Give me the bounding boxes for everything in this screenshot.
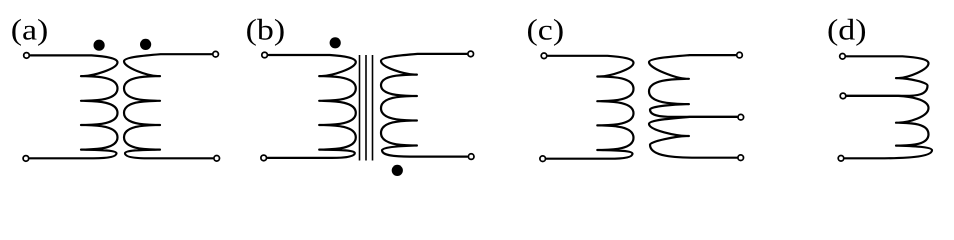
primary winding Lc1 with leads bbox=[547, 56, 634, 159]
secondary winding Lc2 upper half with center-tap lead bbox=[649, 55, 737, 117]
svg-text:(a): (a) bbox=[11, 12, 49, 46]
terminal c5 bbox=[738, 155, 744, 161]
svg-text:(c): (c) bbox=[527, 12, 565, 46]
svg-text:(d): (d) bbox=[827, 12, 867, 46]
terminal c1 bbox=[541, 53, 547, 59]
terminal a4 bbox=[214, 156, 220, 162]
phase dot on Lb1 bbox=[330, 37, 341, 48]
terminal b3 bbox=[468, 51, 474, 57]
magnetic core bbox=[359, 55, 361, 161]
terminal a2 bbox=[23, 156, 29, 162]
phase dot on La2 bbox=[140, 39, 151, 50]
terminal a1 bbox=[24, 53, 30, 59]
terminal d2 bbox=[840, 93, 846, 99]
primary winding Lb1 with leads bbox=[268, 55, 356, 158]
svg-text:(b): (b) bbox=[246, 12, 286, 46]
terminal c2 bbox=[540, 156, 546, 162]
terminal c3 bbox=[737, 52, 743, 58]
secondary winding La2 with leads bbox=[124, 54, 213, 158]
terminal b2 bbox=[261, 155, 267, 161]
terminal d1 bbox=[840, 54, 846, 60]
phase dot on La1 bbox=[94, 40, 105, 51]
secondary winding Lb2 with leads bbox=[381, 54, 467, 157]
terminal d3 bbox=[838, 156, 844, 162]
phase dot on Lb2 bbox=[392, 165, 403, 176]
terminal b4 bbox=[468, 154, 474, 160]
terminal c4 bbox=[738, 114, 744, 120]
terminal a3 bbox=[213, 51, 219, 57]
tapped winding Ld lower section with lead bbox=[845, 96, 932, 158]
tapped winding Ld upper section with leads bbox=[847, 56, 929, 96]
primary winding La1 with leads bbox=[30, 55, 118, 158]
terminal b1 bbox=[262, 52, 268, 58]
secondary winding Lc2 lower half with lead bbox=[649, 117, 737, 158]
